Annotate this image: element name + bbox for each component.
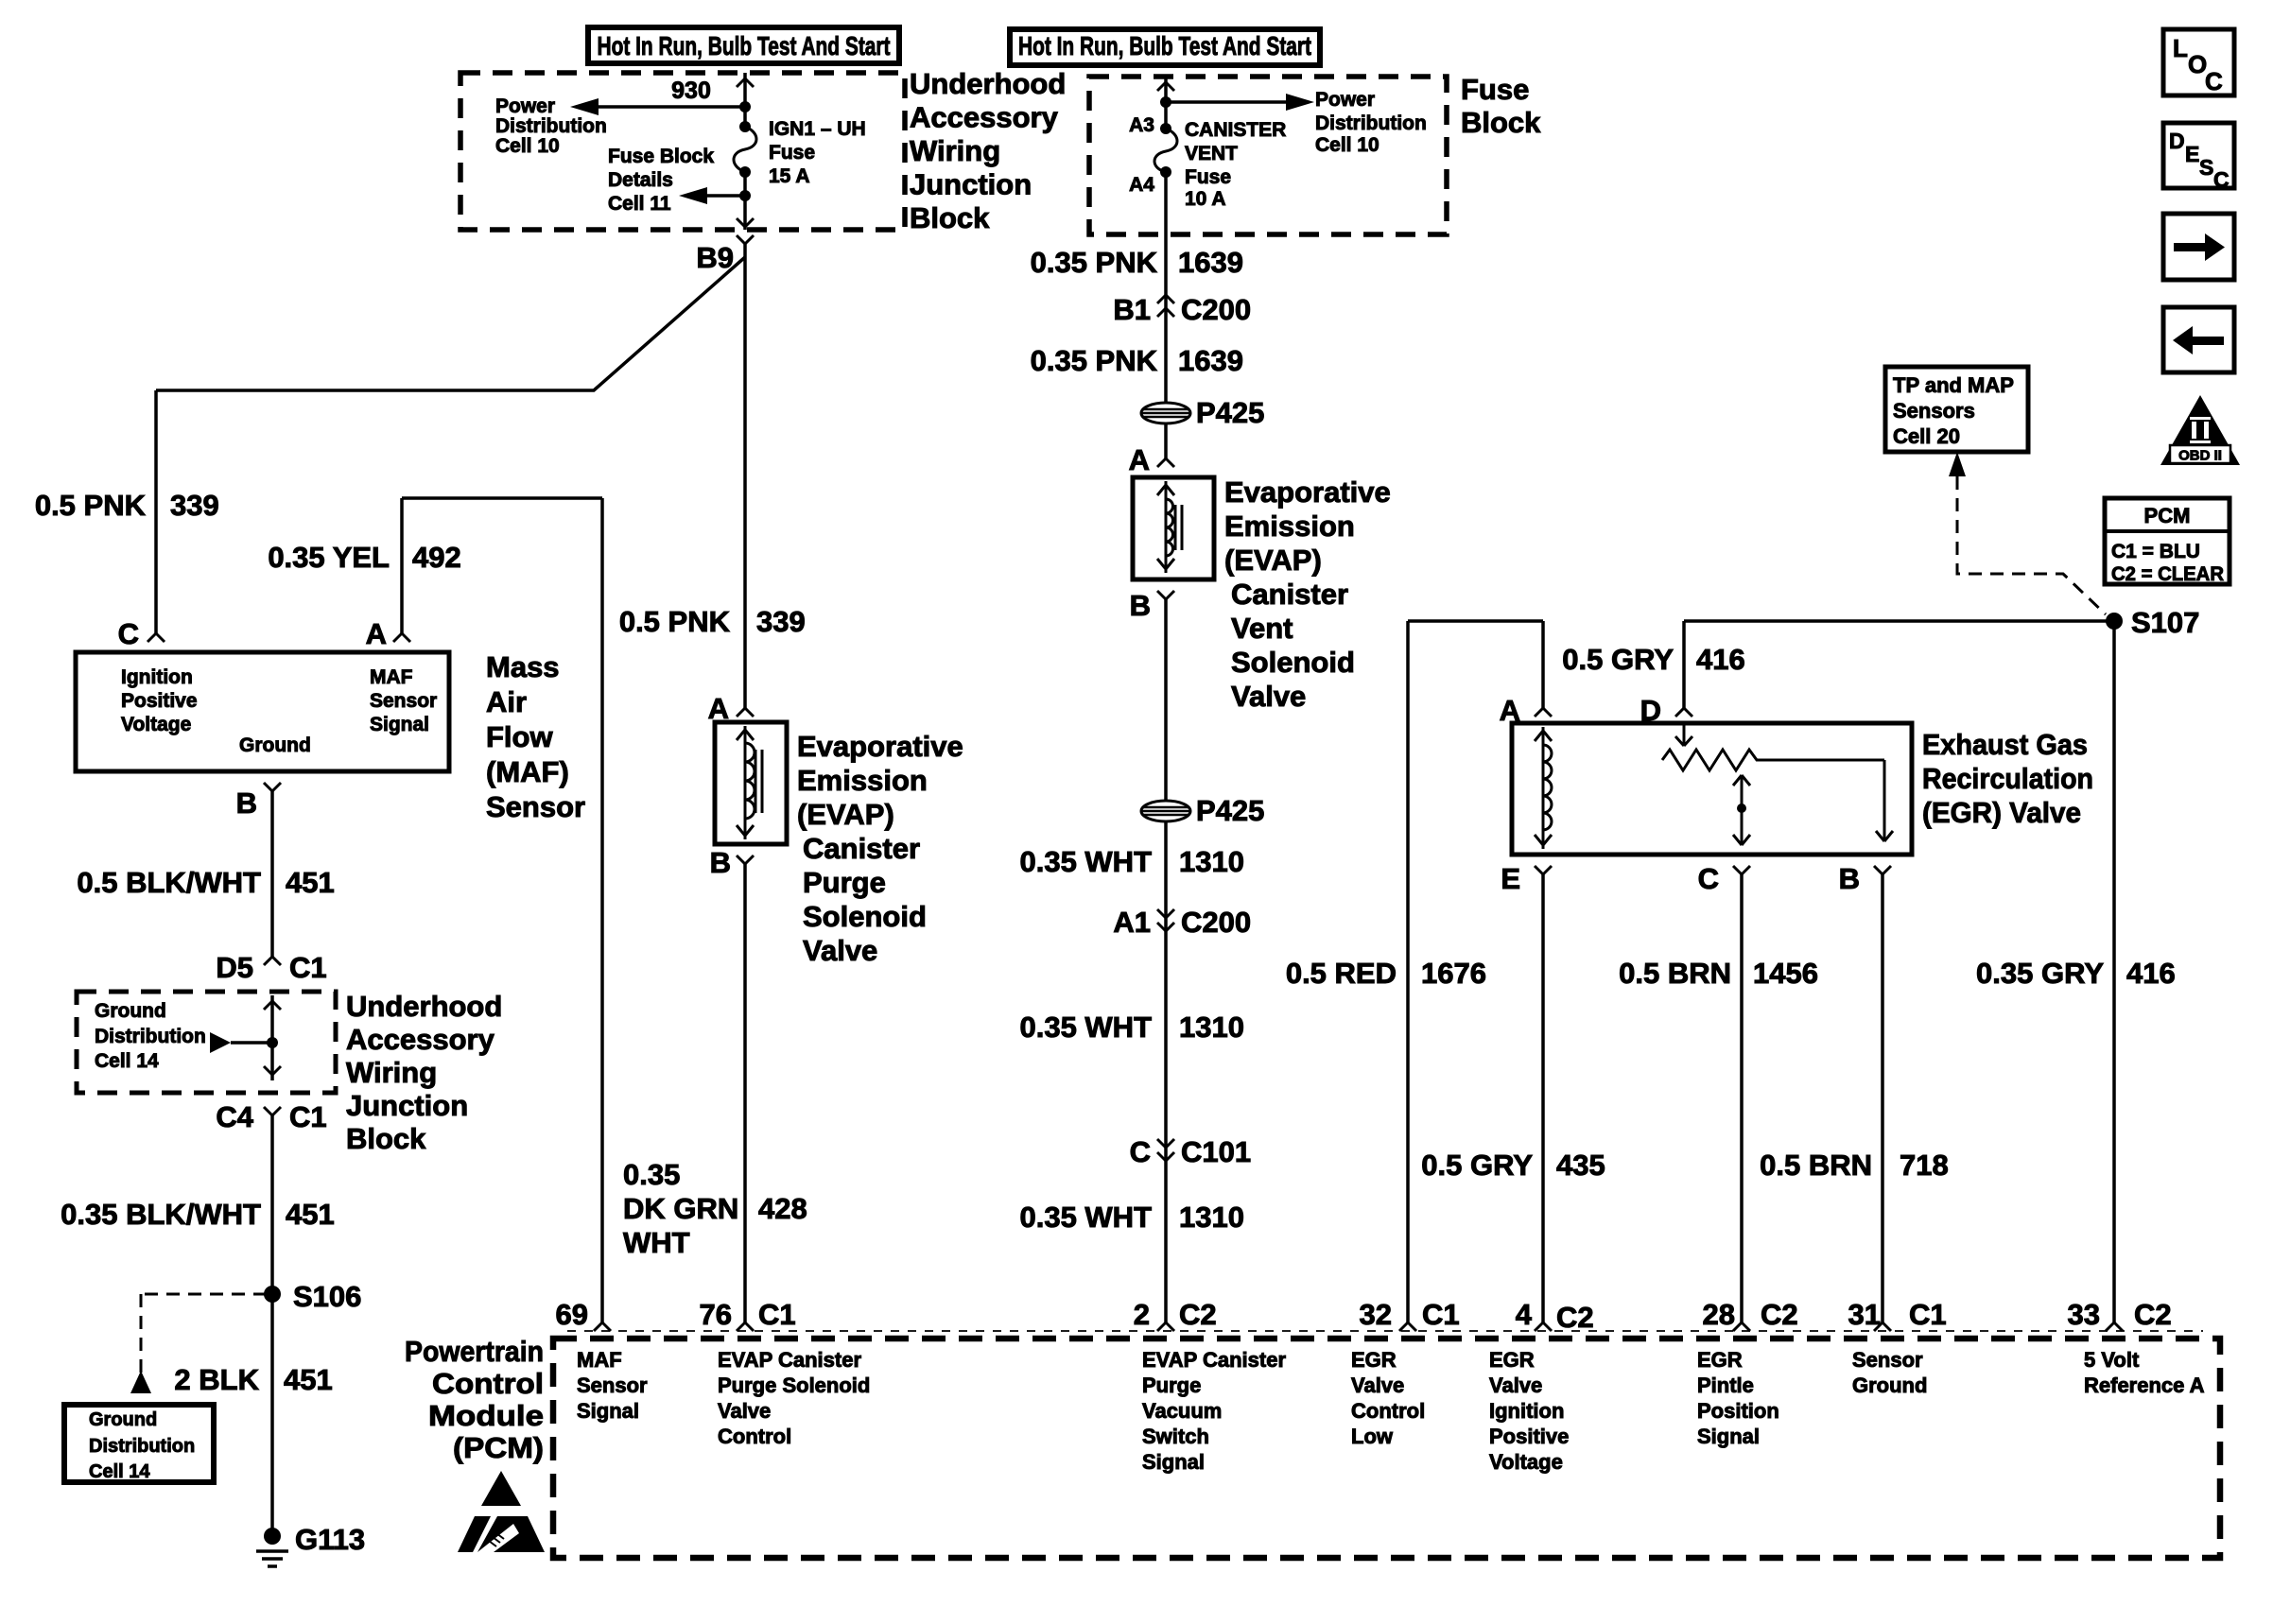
svg-text:Wiring: Wiring xyxy=(346,1056,437,1089)
svg-text:Ignition: Ignition xyxy=(1489,1399,1564,1423)
svg-text:Ground: Ground xyxy=(89,1409,157,1430)
svg-text:Voltage: Voltage xyxy=(121,714,191,735)
svg-text:Hot In Run, Bulb Test And Star: Hot In Run, Bulb Test And Start xyxy=(598,31,891,60)
svg-text:OBD II: OBD II xyxy=(2178,448,2222,464)
svg-text:Cell 14: Cell 14 xyxy=(95,1050,159,1072)
svg-text:Signal: Signal xyxy=(370,714,429,735)
svg-text:Valve: Valve xyxy=(803,934,877,967)
svg-text:Hot In Run, Bulb Test And Star: Hot In Run, Bulb Test And Start xyxy=(1018,31,1311,60)
svg-text:Cell 14: Cell 14 xyxy=(89,1461,150,1482)
svg-text:Emission: Emission xyxy=(797,764,928,797)
svg-text:C1: C1 xyxy=(289,1100,327,1133)
svg-text:S: S xyxy=(2199,155,2213,180)
svg-text:Control: Control xyxy=(718,1425,791,1448)
svg-text:416: 416 xyxy=(2126,957,2176,990)
svg-text:(EVAP): (EVAP) xyxy=(1224,544,1322,577)
svg-text:C1: C1 xyxy=(1422,1298,1460,1331)
svg-text:A3: A3 xyxy=(1129,114,1154,136)
svg-text:S107: S107 xyxy=(2131,606,2199,639)
svg-text:Valve: Valve xyxy=(1351,1373,1404,1397)
svg-text:D: D xyxy=(2169,129,2185,153)
svg-text:EVAP Canister: EVAP Canister xyxy=(1142,1348,1286,1372)
svg-text:0.5 GRY: 0.5 GRY xyxy=(1562,643,1674,676)
svg-text:Control: Control xyxy=(1351,1399,1425,1423)
svg-text:451: 451 xyxy=(286,866,335,899)
svg-text:Sensor: Sensor xyxy=(370,690,437,712)
svg-text:Purge Solenoid: Purge Solenoid xyxy=(718,1373,870,1397)
svg-text:28: 28 xyxy=(1703,1298,1735,1331)
svg-text:0.35 PNK: 0.35 PNK xyxy=(1031,344,1158,377)
svg-text:G113: G113 xyxy=(295,1523,365,1556)
svg-text:Fuse: Fuse xyxy=(769,142,815,164)
svg-text:0.5 GRY: 0.5 GRY xyxy=(1421,1149,1533,1182)
svg-text:(PCM): (PCM) xyxy=(453,1431,544,1464)
svg-text:C101: C101 xyxy=(1181,1135,1251,1168)
svg-text:C2: C2 xyxy=(2134,1298,2172,1331)
svg-text:A: A xyxy=(366,617,387,650)
svg-text:0.5 BRN: 0.5 BRN xyxy=(1619,957,1731,990)
svg-text:(MAF): (MAF) xyxy=(486,755,569,788)
svg-text:Sensor: Sensor xyxy=(1852,1348,1923,1372)
svg-text:1456: 1456 xyxy=(1753,957,1818,990)
svg-text:Purge: Purge xyxy=(1142,1373,1201,1397)
svg-text:339: 339 xyxy=(170,489,219,522)
svg-text:15 A: 15 A xyxy=(769,165,810,187)
svg-text:Fuse: Fuse xyxy=(1185,166,1231,188)
svg-text:718: 718 xyxy=(1900,1149,1949,1182)
svg-text:EGR: EGR xyxy=(1489,1348,1535,1372)
svg-text:Block: Block xyxy=(1461,106,1541,139)
svg-text:Cell 11: Cell 11 xyxy=(608,193,671,215)
svg-text:E: E xyxy=(1501,862,1520,895)
svg-text:0.35 YEL: 0.35 YEL xyxy=(268,541,390,574)
svg-text:B9: B9 xyxy=(696,241,734,274)
svg-text:Underhood: Underhood xyxy=(346,990,502,1023)
svg-text:A4: A4 xyxy=(1129,174,1154,196)
svg-text:C: C xyxy=(1698,862,1719,895)
svg-text:Positive: Positive xyxy=(121,690,198,712)
svg-text:930: 930 xyxy=(671,78,711,104)
svg-text:5 Volt: 5 Volt xyxy=(2084,1348,2140,1372)
svg-text:Evaporative: Evaporative xyxy=(1224,475,1391,509)
svg-text:Voltage: Voltage xyxy=(1489,1450,1563,1474)
svg-text:E: E xyxy=(2185,142,2199,166)
svg-text:0.5 PNK: 0.5 PNK xyxy=(35,489,147,522)
svg-text:Power: Power xyxy=(1315,89,1375,111)
svg-text:2: 2 xyxy=(1134,1298,1150,1331)
svg-text:Wiring: Wiring xyxy=(910,134,1000,167)
svg-text:Sensors: Sensors xyxy=(1893,399,1975,423)
svg-text:Cell 10: Cell 10 xyxy=(1315,134,1379,156)
svg-text:S106: S106 xyxy=(293,1280,361,1313)
svg-text:1639: 1639 xyxy=(1178,344,1243,377)
svg-text:Valve: Valve xyxy=(718,1399,771,1423)
svg-text:B: B xyxy=(236,786,257,820)
svg-text:0.5 PNK: 0.5 PNK xyxy=(619,605,731,638)
svg-text:339: 339 xyxy=(756,605,806,638)
svg-text:C: C xyxy=(2205,67,2223,95)
svg-text:C2 = CLEAR: C2 = CLEAR xyxy=(2111,563,2224,585)
svg-text:Accessory: Accessory xyxy=(910,101,1059,134)
svg-text:Signal: Signal xyxy=(1697,1425,1760,1448)
svg-text:(EGR) Valve: (EGR) Valve xyxy=(1922,796,2081,829)
svg-text:Block: Block xyxy=(910,201,990,234)
svg-text:Fuse Block: Fuse Block xyxy=(608,146,714,167)
svg-text:L: L xyxy=(2173,34,2188,62)
svg-text:C4: C4 xyxy=(216,1100,253,1133)
svg-text:B1: B1 xyxy=(1113,293,1151,326)
svg-text:451: 451 xyxy=(284,1363,333,1396)
svg-text:0.35 PNK: 0.35 PNK xyxy=(1031,246,1158,279)
svg-text:0.5 BLK/WHT: 0.5 BLK/WHT xyxy=(77,866,261,899)
svg-text:Junction: Junction xyxy=(346,1089,468,1122)
svg-text:Solenoid: Solenoid xyxy=(1231,646,1355,679)
svg-text:C1: C1 xyxy=(758,1298,796,1331)
svg-text:MAF: MAF xyxy=(370,666,413,688)
svg-text:451: 451 xyxy=(286,1198,335,1231)
svg-text:76: 76 xyxy=(700,1298,732,1331)
svg-text:A: A xyxy=(1500,694,1520,727)
svg-text:32: 32 xyxy=(1360,1298,1392,1331)
svg-text:Emission: Emission xyxy=(1224,510,1355,543)
svg-text:A: A xyxy=(1129,443,1150,476)
svg-text:Vacuum: Vacuum xyxy=(1142,1399,1222,1423)
svg-text:Underhood: Underhood xyxy=(910,67,1066,100)
svg-text:C1 = BLU: C1 = BLU xyxy=(2111,541,2200,562)
svg-text:Evaporative: Evaporative xyxy=(797,730,963,763)
svg-text:P425: P425 xyxy=(1196,794,1264,827)
svg-text:Fuse: Fuse xyxy=(1461,73,1529,106)
svg-text:A: A xyxy=(708,692,729,725)
svg-text:Position: Position xyxy=(1697,1399,1779,1423)
svg-text:0.35 BLK/WHT: 0.35 BLK/WHT xyxy=(61,1198,261,1231)
svg-text:31: 31 xyxy=(1848,1298,1881,1331)
svg-text:A1: A1 xyxy=(1113,906,1151,939)
svg-text:C: C xyxy=(2213,167,2230,192)
svg-text:1676: 1676 xyxy=(1421,957,1486,990)
svg-text:4: 4 xyxy=(1516,1298,1533,1331)
svg-text:1310: 1310 xyxy=(1179,1011,1244,1044)
svg-text:Exhaust Gas: Exhaust Gas xyxy=(1922,728,2088,761)
svg-text:10 A: 10 A xyxy=(1185,188,1226,210)
svg-text:Signal: Signal xyxy=(1142,1450,1205,1474)
svg-text:TP and MAP: TP and MAP xyxy=(1893,373,2014,397)
svg-text:0.35 GRY: 0.35 GRY xyxy=(1976,957,2104,990)
svg-text:Valve: Valve xyxy=(1231,680,1306,713)
svg-text:Junction: Junction xyxy=(910,168,1032,201)
svg-text:435: 435 xyxy=(1556,1149,1605,1182)
svg-text:Accessory: Accessory xyxy=(346,1023,495,1056)
svg-text:Mass: Mass xyxy=(486,650,560,683)
svg-text:Pintle: Pintle xyxy=(1697,1373,1754,1397)
svg-text:0.35 WHT: 0.35 WHT xyxy=(1019,1011,1152,1044)
svg-text:Ground: Ground xyxy=(1852,1373,1927,1397)
svg-text:Distribution: Distribution xyxy=(495,115,607,137)
svg-text:C: C xyxy=(1130,1135,1151,1168)
svg-text:0.35 WHT: 0.35 WHT xyxy=(1019,1201,1152,1234)
svg-text:IGN1 – UH: IGN1 – UH xyxy=(769,118,866,140)
svg-text:492: 492 xyxy=(412,541,461,574)
svg-text:Ground: Ground xyxy=(239,734,311,756)
svg-text:CANISTER: CANISTER xyxy=(1185,119,1286,141)
svg-text:Air: Air xyxy=(486,685,527,718)
svg-text:B: B xyxy=(1130,589,1151,622)
svg-text:EGR: EGR xyxy=(1697,1348,1743,1372)
svg-text:Distribution: Distribution xyxy=(89,1436,195,1457)
svg-text:P425: P425 xyxy=(1196,396,1264,429)
svg-text:Cell 10: Cell 10 xyxy=(495,135,560,157)
svg-text:69: 69 xyxy=(556,1298,588,1331)
svg-text:C200: C200 xyxy=(1181,293,1251,326)
svg-text:Powertrain: Powertrain xyxy=(405,1335,544,1368)
svg-text:C2: C2 xyxy=(1556,1301,1594,1334)
svg-text:Distribution: Distribution xyxy=(1315,112,1427,134)
svg-text:Module: Module xyxy=(428,1399,544,1432)
svg-text:428: 428 xyxy=(758,1192,807,1225)
svg-text:PCM: PCM xyxy=(2144,504,2191,527)
svg-text:Distribution: Distribution xyxy=(95,1026,206,1047)
svg-text:33: 33 xyxy=(2068,1298,2100,1331)
svg-text:Valve: Valve xyxy=(1489,1373,1542,1397)
svg-text:0.35: 0.35 xyxy=(623,1158,680,1191)
svg-text:Switch: Switch xyxy=(1142,1425,1209,1448)
svg-text:Sensor: Sensor xyxy=(577,1373,648,1397)
svg-text:EGR: EGR xyxy=(1351,1348,1397,1372)
svg-text:Control: Control xyxy=(432,1367,544,1400)
svg-text:DK GRN: DK GRN xyxy=(623,1192,738,1225)
svg-text:Ignition: Ignition xyxy=(121,666,193,688)
svg-text:Vent: Vent xyxy=(1231,612,1293,645)
svg-text:D: D xyxy=(1640,694,1661,727)
svg-text:Solenoid: Solenoid xyxy=(803,900,927,933)
svg-text:Details: Details xyxy=(608,169,673,191)
svg-text:Block: Block xyxy=(346,1122,426,1155)
svg-text:416: 416 xyxy=(1696,643,1745,676)
svg-text:Reference A: Reference A xyxy=(2084,1373,2205,1397)
svg-text:D5: D5 xyxy=(216,951,253,984)
svg-text:C: C xyxy=(118,617,139,650)
svg-text:0.35 WHT: 0.35 WHT xyxy=(1019,845,1152,878)
svg-text:1310: 1310 xyxy=(1179,1201,1244,1234)
svg-text:2 BLK: 2 BLK xyxy=(174,1363,259,1396)
svg-text:C200: C200 xyxy=(1181,906,1251,939)
svg-text:EVAP Canister: EVAP Canister xyxy=(718,1348,861,1372)
svg-text:Positive: Positive xyxy=(1489,1425,1569,1448)
svg-text:(EVAP): (EVAP) xyxy=(797,798,894,831)
svg-text:Sensor: Sensor xyxy=(486,790,585,823)
svg-text:Power: Power xyxy=(495,95,555,117)
svg-text:MAF: MAF xyxy=(577,1348,622,1372)
svg-text:B: B xyxy=(1839,862,1860,895)
svg-text:0.5 BRN: 0.5 BRN xyxy=(1760,1149,1872,1182)
svg-text:Purge: Purge xyxy=(803,866,886,899)
svg-text:Ground: Ground xyxy=(95,1000,166,1022)
svg-text:Canister: Canister xyxy=(1231,578,1348,611)
svg-text:Signal: Signal xyxy=(577,1399,639,1423)
svg-text:0.5 RED: 0.5 RED xyxy=(1286,957,1397,990)
svg-text:Cell 20: Cell 20 xyxy=(1893,424,1960,448)
svg-text:1639: 1639 xyxy=(1178,246,1243,279)
svg-text:C1: C1 xyxy=(1909,1298,1947,1331)
svg-text:C1: C1 xyxy=(289,951,327,984)
svg-text:B: B xyxy=(710,846,731,879)
svg-text:WHT: WHT xyxy=(623,1226,690,1259)
svg-text:Flow: Flow xyxy=(486,720,553,753)
svg-text:C2: C2 xyxy=(1761,1298,1798,1331)
svg-text:VENT: VENT xyxy=(1185,143,1238,164)
svg-text:Low: Low xyxy=(1351,1425,1394,1448)
svg-text:Recirculation: Recirculation xyxy=(1922,762,2093,795)
svg-text:Canister: Canister xyxy=(803,832,920,865)
svg-text:1310: 1310 xyxy=(1179,845,1244,878)
svg-text:C2: C2 xyxy=(1179,1298,1217,1331)
